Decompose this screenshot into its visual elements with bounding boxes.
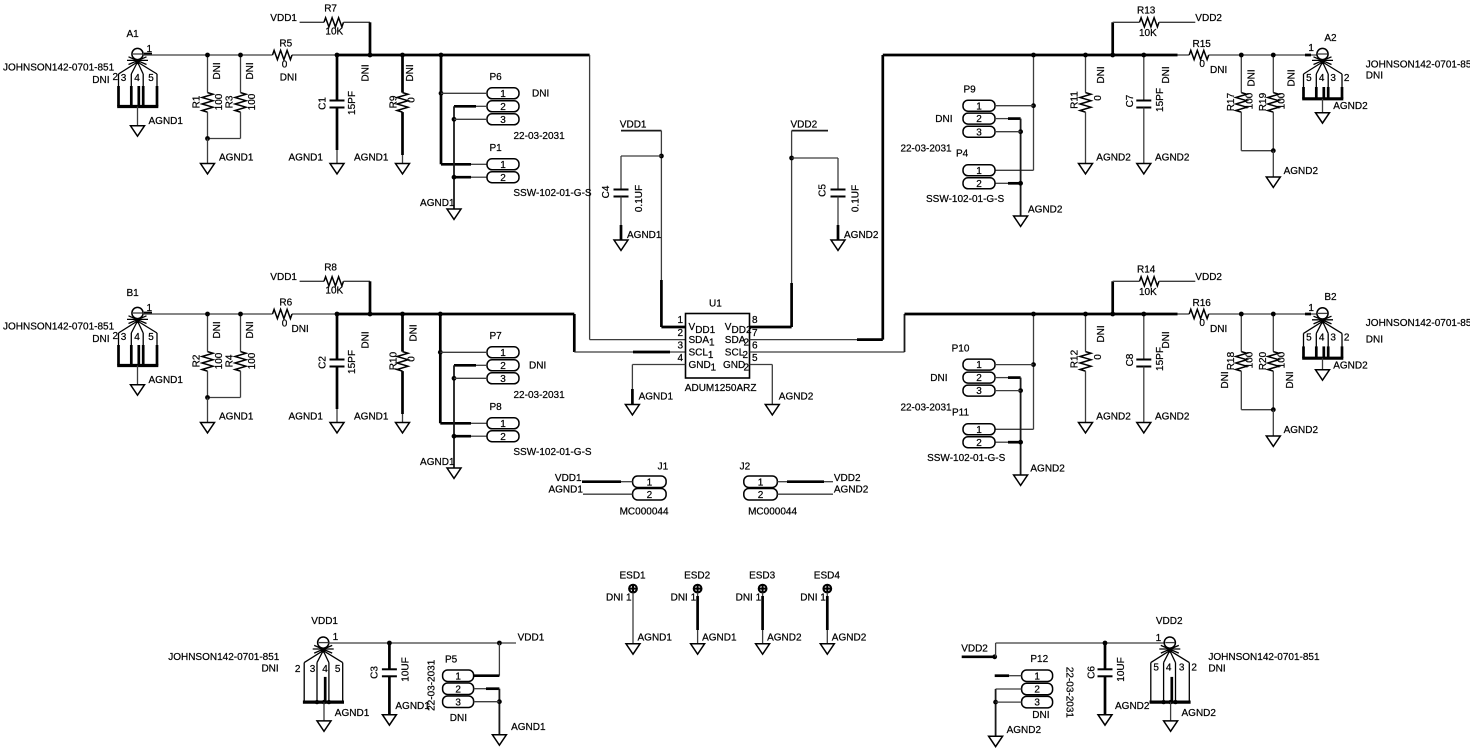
- connector J2: [740, 461, 798, 517]
- svg-text:R2: R2: [192, 354, 203, 367]
- svg-text:5: 5: [148, 332, 154, 343]
- resistor R17: [1226, 53, 1258, 151]
- svg-text:AGND1: AGND1: [702, 633, 737, 644]
- svg-text:C1: C1: [318, 97, 329, 110]
- capacitor C2: [318, 312, 372, 423]
- svg-text:DNI: DNI: [450, 713, 467, 724]
- wire P7/P8 signal riser: [438, 312, 487, 424]
- svg-text:5: 5: [1153, 663, 1159, 674]
- svg-text:AGND2: AGND2: [1333, 360, 1368, 371]
- svg-text:100: 100: [1277, 92, 1288, 109]
- resistor R6: [273, 298, 309, 335]
- svg-text:DNI: DNI: [1210, 324, 1227, 335]
- svg-text:2: 2: [500, 102, 506, 113]
- connector A2: [1302, 33, 1470, 99]
- wire VDD1 to J1 pin 1: [555, 473, 633, 484]
- svg-text:1: 1: [500, 419, 506, 430]
- wire SDA1 bus: [143, 55, 686, 340]
- ground AGND2 (R11): [1079, 153, 1132, 174]
- svg-text:AGND1: AGND1: [420, 198, 455, 209]
- svg-text:3: 3: [455, 697, 461, 708]
- svg-text:SSW-102-01-G-S: SSW-102-01-G-S: [927, 453, 1006, 464]
- svg-text:5: 5: [148, 73, 154, 84]
- svg-text:1: 1: [709, 338, 715, 349]
- svg-text:JOHNSON142-0701-851: JOHNSON142-0701-851: [1366, 318, 1470, 329]
- svg-text:100: 100: [214, 352, 225, 369]
- wire P12 ground net: [993, 689, 1021, 736]
- svg-text:0: 0: [1093, 354, 1104, 360]
- svg-text:DNI: DNI: [1208, 663, 1225, 674]
- ground AGND1 (A1): [131, 107, 184, 137]
- svg-text:A1: A1: [127, 29, 140, 40]
- svg-text:ESD2: ESD2: [684, 571, 711, 582]
- svg-text:2: 2: [647, 490, 653, 501]
- capacitor C5: [792, 158, 862, 240]
- svg-text:DNI 1: DNI 1: [671, 593, 697, 604]
- svg-text:MC000044: MC000044: [748, 507, 797, 518]
- svg-text:AGND2: AGND2: [1155, 412, 1190, 423]
- svg-text:2: 2: [455, 684, 461, 695]
- svg-text:AGND2: AGND2: [767, 633, 802, 644]
- svg-text:SSW-102-01-G-S: SSW-102-01-G-S: [513, 447, 592, 458]
- svg-text:1: 1: [1156, 633, 1162, 644]
- svg-text:2: 2: [113, 72, 119, 83]
- svg-text:15PF: 15PF: [347, 91, 358, 115]
- svg-text:JOHNSON142-0701-851: JOHNSON142-0701-851: [168, 652, 280, 663]
- svg-text:100: 100: [247, 352, 258, 369]
- wire P5 ground net: [474, 689, 502, 735]
- resistor R14 pull-up: [1110, 264, 1222, 316]
- capacitor C7: [1125, 53, 1172, 164]
- resistor R18: [1220, 312, 1256, 410]
- ground AGND2 (P9/P4): [1014, 205, 1063, 227]
- wire P5 pin 1 to VDD1: [474, 643, 500, 676]
- wire P6 ground net: [452, 106, 487, 209]
- svg-text:AGND1: AGND1: [548, 485, 583, 496]
- svg-text:2: 2: [500, 361, 506, 372]
- svg-text:2: 2: [295, 664, 301, 675]
- svg-text:3: 3: [976, 127, 982, 138]
- resistor R19: [1241, 53, 1297, 154]
- svg-text:A2: A2: [1324, 33, 1337, 44]
- svg-text:SDA: SDA: [689, 335, 710, 346]
- svg-text:R14: R14: [1137, 264, 1156, 275]
- svg-text:AGND1: AGND1: [627, 230, 662, 241]
- ground AGND1 (C1): [289, 153, 345, 174]
- header P11: [927, 408, 1006, 464]
- svg-text:DNI: DNI: [1161, 331, 1172, 348]
- svg-text:AGND2: AGND2: [1284, 166, 1319, 177]
- ground AGND2 (C6): [1098, 701, 1150, 725]
- svg-text:10K: 10K: [325, 286, 343, 297]
- svg-text:AGND1: AGND1: [219, 153, 254, 164]
- svg-text:3: 3: [1034, 698, 1040, 709]
- resistor R13 pull-up: [1110, 5, 1222, 57]
- svg-text:2: 2: [1344, 73, 1350, 84]
- svg-text:AGND1: AGND1: [638, 633, 673, 644]
- svg-text:C3: C3: [369, 666, 380, 679]
- svg-text:DNI: DNI: [261, 663, 278, 674]
- svg-text:2: 2: [1034, 685, 1040, 696]
- wire VDD1 rail: [328, 632, 545, 645]
- wire VDD2 to U1 pin 8: [750, 120, 829, 328]
- svg-text:15PF: 15PF: [347, 350, 358, 374]
- svg-text:100: 100: [247, 93, 258, 110]
- ground AGND2 (VDD2 jack): [1164, 702, 1217, 731]
- svg-text:0: 0: [282, 319, 288, 330]
- svg-text:DNI: DNI: [212, 62, 223, 79]
- wire SCL2 bus: [750, 314, 1318, 352]
- svg-text:5: 5: [1306, 333, 1312, 344]
- svg-text:AGND1: AGND1: [335, 708, 370, 719]
- svg-text:10K: 10K: [1139, 287, 1157, 298]
- svg-text:C2: C2: [318, 356, 329, 369]
- connector J1: [620, 461, 669, 517]
- connector B1: [3, 288, 158, 366]
- svg-text:DNI: DNI: [1247, 69, 1258, 86]
- svg-text:3: 3: [677, 340, 683, 351]
- svg-text:1: 1: [647, 477, 653, 488]
- resistor R20: [1241, 312, 1296, 413]
- svg-text:3: 3: [1330, 73, 1336, 84]
- ground AGND2 (R12): [1079, 412, 1132, 433]
- ground AGND2 (R18/R20): [1266, 410, 1318, 447]
- svg-text:VDD2: VDD2: [834, 473, 861, 484]
- svg-text:2: 2: [1191, 663, 1197, 674]
- ground AGND1 (C2): [289, 412, 345, 433]
- svg-text:P4: P4: [956, 149, 969, 160]
- svg-text:4: 4: [322, 664, 328, 675]
- svg-text:4: 4: [134, 73, 140, 84]
- svg-text:3: 3: [500, 374, 506, 385]
- svg-text:7: 7: [752, 328, 758, 339]
- svg-text:C4: C4: [601, 185, 612, 198]
- svg-text:2: 2: [976, 438, 982, 449]
- svg-text:AGND1: AGND1: [289, 153, 324, 164]
- wire GND1 (U1 pin 4): [632, 365, 685, 405]
- capacitor C4: [601, 156, 662, 240]
- svg-text:DNI: DNI: [532, 89, 549, 100]
- svg-text:10K: 10K: [1139, 28, 1157, 39]
- svg-text:2: 2: [500, 173, 506, 184]
- svg-text:4: 4: [1319, 73, 1325, 84]
- wire P6/P1 signal riser: [439, 53, 487, 165]
- svg-text:3: 3: [1330, 333, 1336, 344]
- svg-text:DNI: DNI: [92, 334, 109, 345]
- svg-text:JOHNSON142-0701-851: JOHNSON142-0701-851: [3, 322, 115, 333]
- svg-text:DNI: DNI: [405, 64, 416, 81]
- svg-text:DNI: DNI: [930, 373, 947, 384]
- svg-text:DNI: DNI: [1220, 371, 1231, 388]
- svg-text:4: 4: [677, 353, 683, 364]
- svg-text:0.1UF: 0.1UF: [634, 185, 645, 212]
- svg-text:J2: J2: [740, 461, 751, 472]
- svg-text:B2: B2: [1324, 292, 1337, 303]
- svg-text:AGND2: AGND2: [1333, 101, 1368, 112]
- ground AGND1 (R2/R4): [201, 398, 254, 433]
- svg-text:VDD1: VDD1: [270, 13, 297, 24]
- svg-text:AGND2: AGND2: [1284, 425, 1319, 436]
- svg-text:VDD1: VDD1: [518, 632, 545, 643]
- svg-text:AGND2: AGND2: [1115, 701, 1150, 712]
- ground AGND2 (P12): [989, 725, 1042, 747]
- svg-text:VDD2: VDD2: [1156, 616, 1183, 627]
- svg-text:0: 0: [1199, 59, 1205, 70]
- svg-text:AGND2: AGND2: [1155, 153, 1190, 164]
- svg-text:1: 1: [758, 477, 764, 488]
- capacitor C8: [1125, 312, 1172, 423]
- svg-text:DNI: DNI: [1096, 66, 1107, 83]
- svg-text:1: 1: [976, 101, 982, 112]
- wire P10 ground net: [995, 378, 1023, 475]
- svg-text:2: 2: [677, 328, 683, 339]
- svg-text:4: 4: [1166, 663, 1172, 674]
- header P5: [427, 654, 474, 724]
- svg-text:DNI: DNI: [92, 75, 109, 86]
- svg-text:AGND1: AGND1: [420, 457, 455, 468]
- ground AGND2 (U1): [765, 392, 813, 415]
- ground AGND2 (C8): [1137, 412, 1190, 433]
- header P4: [926, 149, 1005, 205]
- svg-text:1: 1: [976, 166, 982, 177]
- svg-text:AGND1: AGND1: [149, 116, 184, 127]
- svg-text:P8: P8: [490, 402, 503, 413]
- svg-text:3: 3: [121, 73, 127, 84]
- svg-text:DNI: DNI: [245, 321, 256, 338]
- svg-text:DNI: DNI: [1366, 335, 1383, 346]
- ground AGND2 (C7): [1137, 153, 1190, 174]
- svg-text:3: 3: [1179, 663, 1185, 674]
- svg-text:DNI 1: DNI 1: [736, 593, 762, 604]
- svg-text:AGND2: AGND2: [1096, 412, 1131, 423]
- svg-text:AGND2: AGND2: [834, 485, 869, 496]
- svg-text:R9: R9: [389, 95, 400, 108]
- header P1: [487, 143, 592, 199]
- ground AGND1 (C3): [382, 701, 430, 725]
- wire P9 ground net: [995, 119, 1023, 216]
- wire P9/P4 signal riser: [995, 53, 1036, 171]
- svg-text:P10: P10: [952, 344, 970, 355]
- svg-text:DNI: DNI: [361, 331, 372, 348]
- svg-text:DNI: DNI: [292, 324, 309, 335]
- svg-text:R16: R16: [1193, 298, 1212, 309]
- ground AGND1 (ESD2): [691, 633, 737, 655]
- svg-text:P5: P5: [445, 654, 458, 665]
- svg-text:2: 2: [758, 490, 764, 501]
- svg-text:AGND2: AGND2: [779, 392, 814, 403]
- svg-text:10UF: 10UF: [1116, 657, 1127, 681]
- svg-text:DNI: DNI: [245, 62, 256, 79]
- svg-text:GND: GND: [689, 360, 711, 371]
- connector VDD1 jack: [168, 616, 344, 704]
- ESD diode ESD2: [671, 571, 711, 644]
- svg-text:1: 1: [1308, 303, 1314, 314]
- svg-text:1: 1: [455, 671, 461, 682]
- svg-text:0: 0: [1199, 318, 1205, 329]
- ground AGND2 (B2): [1316, 358, 1369, 380]
- header P9: [900, 85, 995, 155]
- svg-text:DNI: DNI: [361, 64, 372, 81]
- resistor R15: [1189, 39, 1227, 76]
- svg-text:VDD2: VDD2: [1195, 13, 1222, 24]
- svg-text:DNI: DNI: [1366, 70, 1383, 81]
- svg-text:4: 4: [1319, 333, 1325, 344]
- svg-text:1: 1: [976, 360, 982, 371]
- ground AGND1 (ESD1): [626, 633, 672, 655]
- svg-text:AGND2: AGND2: [1182, 708, 1217, 719]
- svg-text:ESD4: ESD4: [814, 571, 841, 582]
- svg-text:1: 1: [333, 632, 339, 643]
- svg-text:J1: J1: [658, 461, 669, 472]
- svg-text:2: 2: [744, 338, 750, 349]
- svg-text:22-03-2031: 22-03-2031: [1063, 667, 1074, 719]
- svg-text:P9: P9: [964, 85, 977, 96]
- svg-text:DNI: DNI: [212, 321, 223, 338]
- ground AGND2 (ESD3): [756, 633, 802, 655]
- svg-text:DNI: DNI: [1287, 69, 1298, 86]
- svg-text:R19: R19: [1258, 92, 1269, 111]
- wire AGND2 from J2 pin 2: [777, 485, 868, 496]
- svg-text:R3: R3: [225, 95, 236, 108]
- svg-text:3: 3: [121, 332, 127, 343]
- svg-text:2: 2: [976, 114, 982, 125]
- svg-text:100: 100: [1245, 92, 1256, 109]
- svg-text:R8: R8: [324, 263, 337, 274]
- header P12: [1022, 654, 1075, 721]
- svg-text:AGND1: AGND1: [395, 701, 430, 712]
- ground AGND1 (VDD1 jack): [317, 702, 370, 731]
- svg-text:JOHNSON142-0701-851: JOHNSON142-0701-851: [1366, 59, 1470, 70]
- svg-text:0: 0: [282, 60, 288, 71]
- svg-text:2: 2: [744, 363, 750, 374]
- svg-text:MC000044: MC000044: [620, 507, 669, 518]
- wire SCL1 bus: [143, 314, 686, 352]
- svg-text:1: 1: [1308, 43, 1314, 54]
- svg-text:2: 2: [500, 432, 506, 443]
- svg-text:R1: R1: [192, 95, 203, 108]
- connector A1: [3, 29, 158, 107]
- svg-text:AGND2: AGND2: [1007, 725, 1042, 736]
- wire AGND1 to J1 pin 2: [548, 485, 632, 496]
- resistor R11: [1070, 53, 1108, 164]
- svg-text:DNI: DNI: [1032, 710, 1049, 721]
- wire VDD2 from J2 pin 1: [777, 473, 861, 484]
- svg-text:3: 3: [310, 664, 316, 675]
- header P8: [487, 402, 592, 458]
- ground AGND1 (C4): [614, 230, 662, 250]
- svg-text:100: 100: [1245, 351, 1256, 368]
- header P7: [487, 331, 565, 401]
- svg-text:B1: B1: [127, 288, 140, 299]
- wire P10/P11 signal riser: [995, 312, 1036, 430]
- svg-text:2: 2: [976, 373, 982, 384]
- svg-text:VDD1: VDD1: [311, 616, 338, 627]
- svg-text:0: 0: [1093, 95, 1104, 101]
- svg-text:R10: R10: [389, 351, 400, 370]
- ground AGND2 (ESD4): [820, 633, 866, 655]
- svg-text:SSW-102-01-G-S: SSW-102-01-G-S: [513, 188, 592, 199]
- svg-text:AGND1: AGND1: [354, 153, 389, 164]
- svg-text:22-03-2031: 22-03-2031: [514, 131, 566, 142]
- resistor R4: [205, 312, 258, 400]
- svg-text:AGND1: AGND1: [289, 412, 324, 423]
- svg-text:2: 2: [113, 331, 119, 342]
- resistor R3: [205, 53, 258, 141]
- svg-text:VDD1: VDD1: [270, 272, 297, 283]
- svg-text:R12: R12: [1070, 349, 1081, 368]
- svg-text:3: 3: [500, 115, 506, 126]
- ground AGND1 (R10): [354, 412, 410, 433]
- capacitor C1: [318, 53, 372, 164]
- svg-text:DNI: DNI: [280, 73, 297, 84]
- svg-text:DNI: DNI: [935, 114, 952, 125]
- svg-text:VDD2: VDD2: [791, 120, 818, 131]
- svg-text:AGND1: AGND1: [219, 412, 254, 423]
- svg-text:P6: P6: [490, 72, 503, 83]
- wire SDA2 bus: [750, 55, 1318, 340]
- svg-text:JOHNSON142-0701-851: JOHNSON142-0701-851: [1208, 652, 1320, 663]
- header P6: [487, 72, 565, 142]
- svg-text:C5: C5: [818, 184, 829, 197]
- svg-text:2: 2: [1344, 333, 1350, 344]
- svg-text:22-03-2031: 22-03-2031: [900, 143, 952, 154]
- ground AGND2 (R17/R19): [1266, 151, 1318, 188]
- svg-text:0.1UF: 0.1UF: [851, 185, 862, 212]
- svg-text:8: 8: [752, 315, 758, 326]
- svg-text:10K: 10K: [325, 27, 343, 38]
- svg-text:5: 5: [1306, 73, 1312, 84]
- capacitor C6: [1087, 643, 1128, 715]
- svg-text:22-03-2031: 22-03-2031: [900, 402, 952, 413]
- svg-text:ESD3: ESD3: [749, 571, 776, 582]
- svg-text:0: 0: [407, 97, 418, 103]
- svg-text:DNI: DNI: [409, 324, 420, 341]
- resistor R5: [273, 39, 298, 84]
- connector B2: [1302, 292, 1470, 358]
- svg-text:ADUM1250ARZ: ADUM1250ARZ: [685, 383, 757, 394]
- ground AGND1 (R9): [354, 153, 410, 174]
- svg-text:P12: P12: [1030, 654, 1048, 665]
- svg-text:AGND2: AGND2: [1028, 205, 1063, 216]
- svg-text:1: 1: [500, 89, 506, 100]
- svg-text:R11: R11: [1070, 91, 1081, 109]
- svg-text:R18: R18: [1226, 351, 1237, 370]
- svg-text:SSW-102-01-G-S: SSW-102-01-G-S: [926, 194, 1005, 205]
- ESD diode ESD4: [800, 571, 840, 644]
- svg-text:C7: C7: [1125, 94, 1136, 107]
- svg-text:VDD2: VDD2: [961, 644, 988, 655]
- ground AGND1 (R1/R3): [201, 139, 254, 174]
- resistor R8 pull-up: [270, 263, 372, 317]
- svg-text:AGND2: AGND2: [844, 230, 879, 241]
- ground AGND1 (P5): [492, 722, 546, 745]
- svg-text:P11: P11: [952, 408, 969, 419]
- svg-text:R13: R13: [1137, 5, 1156, 16]
- svg-text:2: 2: [976, 179, 982, 190]
- resistor R1: [192, 53, 226, 139]
- resistor R16: [1189, 298, 1227, 335]
- resistor R12: [1070, 312, 1108, 423]
- svg-text:R6: R6: [279, 298, 292, 309]
- ground AGND1 (P6/P1): [420, 198, 461, 219]
- svg-text:R4: R4: [225, 354, 236, 367]
- svg-text:GND: GND: [723, 360, 745, 371]
- svg-text:22-03-2031: 22-03-2031: [427, 659, 438, 711]
- svg-text:10UF: 10UF: [400, 657, 411, 681]
- svg-text:AGND1: AGND1: [149, 375, 184, 386]
- svg-text:P1: P1: [490, 143, 503, 154]
- svg-text:ESD1: ESD1: [620, 571, 647, 582]
